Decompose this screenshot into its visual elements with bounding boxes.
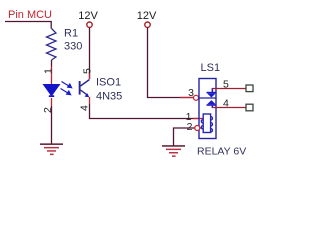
terminal circle relay pin2 xyxy=(195,126,200,131)
wire net 12V to ISO1 collector xyxy=(89,28,91,79)
svg-text:5: 5 xyxy=(223,79,229,91)
svg-text:4: 4 xyxy=(79,105,91,111)
svg-text:2: 2 xyxy=(42,107,54,113)
pin stub ISO1 emitter xyxy=(89,97,91,104)
pin stub relay pin2 into coil xyxy=(200,127,204,129)
wire net relay pin5 xyxy=(212,88,246,90)
pin stub relay pin1 xyxy=(193,118,203,120)
wire net 12V to relay pin3 xyxy=(148,28,194,98)
transistor ISO1 phototransistor xyxy=(79,80,90,98)
svg-text:4N35: 4N35 xyxy=(96,91,122,103)
resistor R1 xyxy=(47,29,57,61)
wire net relay pin4 xyxy=(212,107,246,109)
power terminal 12V (right) xyxy=(137,10,157,27)
pin stub relay pin3 xyxy=(180,97,193,99)
relay contact to pin5 xyxy=(207,88,217,98)
op-to light arrows ISO1 xyxy=(61,82,72,95)
wire net PinMCU to R1 xyxy=(5,22,51,29)
relay contact to pin4 xyxy=(207,100,217,108)
relay LS1 body xyxy=(199,79,216,139)
wire net relay pin2 to ground xyxy=(174,128,196,146)
pin stub LED anode xyxy=(51,67,53,85)
svg-text:12V: 12V xyxy=(78,10,98,22)
ground (left, below LED) xyxy=(40,143,63,155)
power terminal 12V (left) xyxy=(78,10,98,27)
wire net R1 to LED xyxy=(51,60,53,67)
svg-text:2: 2 xyxy=(187,121,193,133)
pin stub LED cathode xyxy=(51,98,53,106)
svg-text:ISO1: ISO1 xyxy=(96,77,121,89)
svg-text:1: 1 xyxy=(43,68,55,74)
svg-text:LS1: LS1 xyxy=(201,62,221,74)
ground (right, below relay pin2 net) xyxy=(162,145,185,157)
svg-text:330: 330 xyxy=(64,41,82,53)
relay common contact line xyxy=(199,97,216,99)
svg-text:5: 5 xyxy=(82,68,94,74)
wire net LED to ground xyxy=(51,106,53,144)
svg-text:RELAY 6V: RELAY 6V xyxy=(197,146,246,158)
terminal square pin5 xyxy=(246,85,253,92)
terminal circle relay pin3 xyxy=(194,95,199,100)
svg-text:Pin MCU: Pin MCU xyxy=(8,9,52,21)
svg-text:3: 3 xyxy=(188,87,194,99)
svg-text:12V: 12V xyxy=(137,10,157,22)
pin stub ISO1 collector xyxy=(89,72,91,79)
svg-text:4: 4 xyxy=(223,98,229,110)
relay coil xyxy=(201,114,212,133)
terminal square pin4 xyxy=(246,104,253,111)
wire net ISO1 emitter to relay pin1 xyxy=(90,104,200,119)
LED D (blue) xyxy=(43,84,61,97)
svg-text:R1: R1 xyxy=(64,28,78,40)
